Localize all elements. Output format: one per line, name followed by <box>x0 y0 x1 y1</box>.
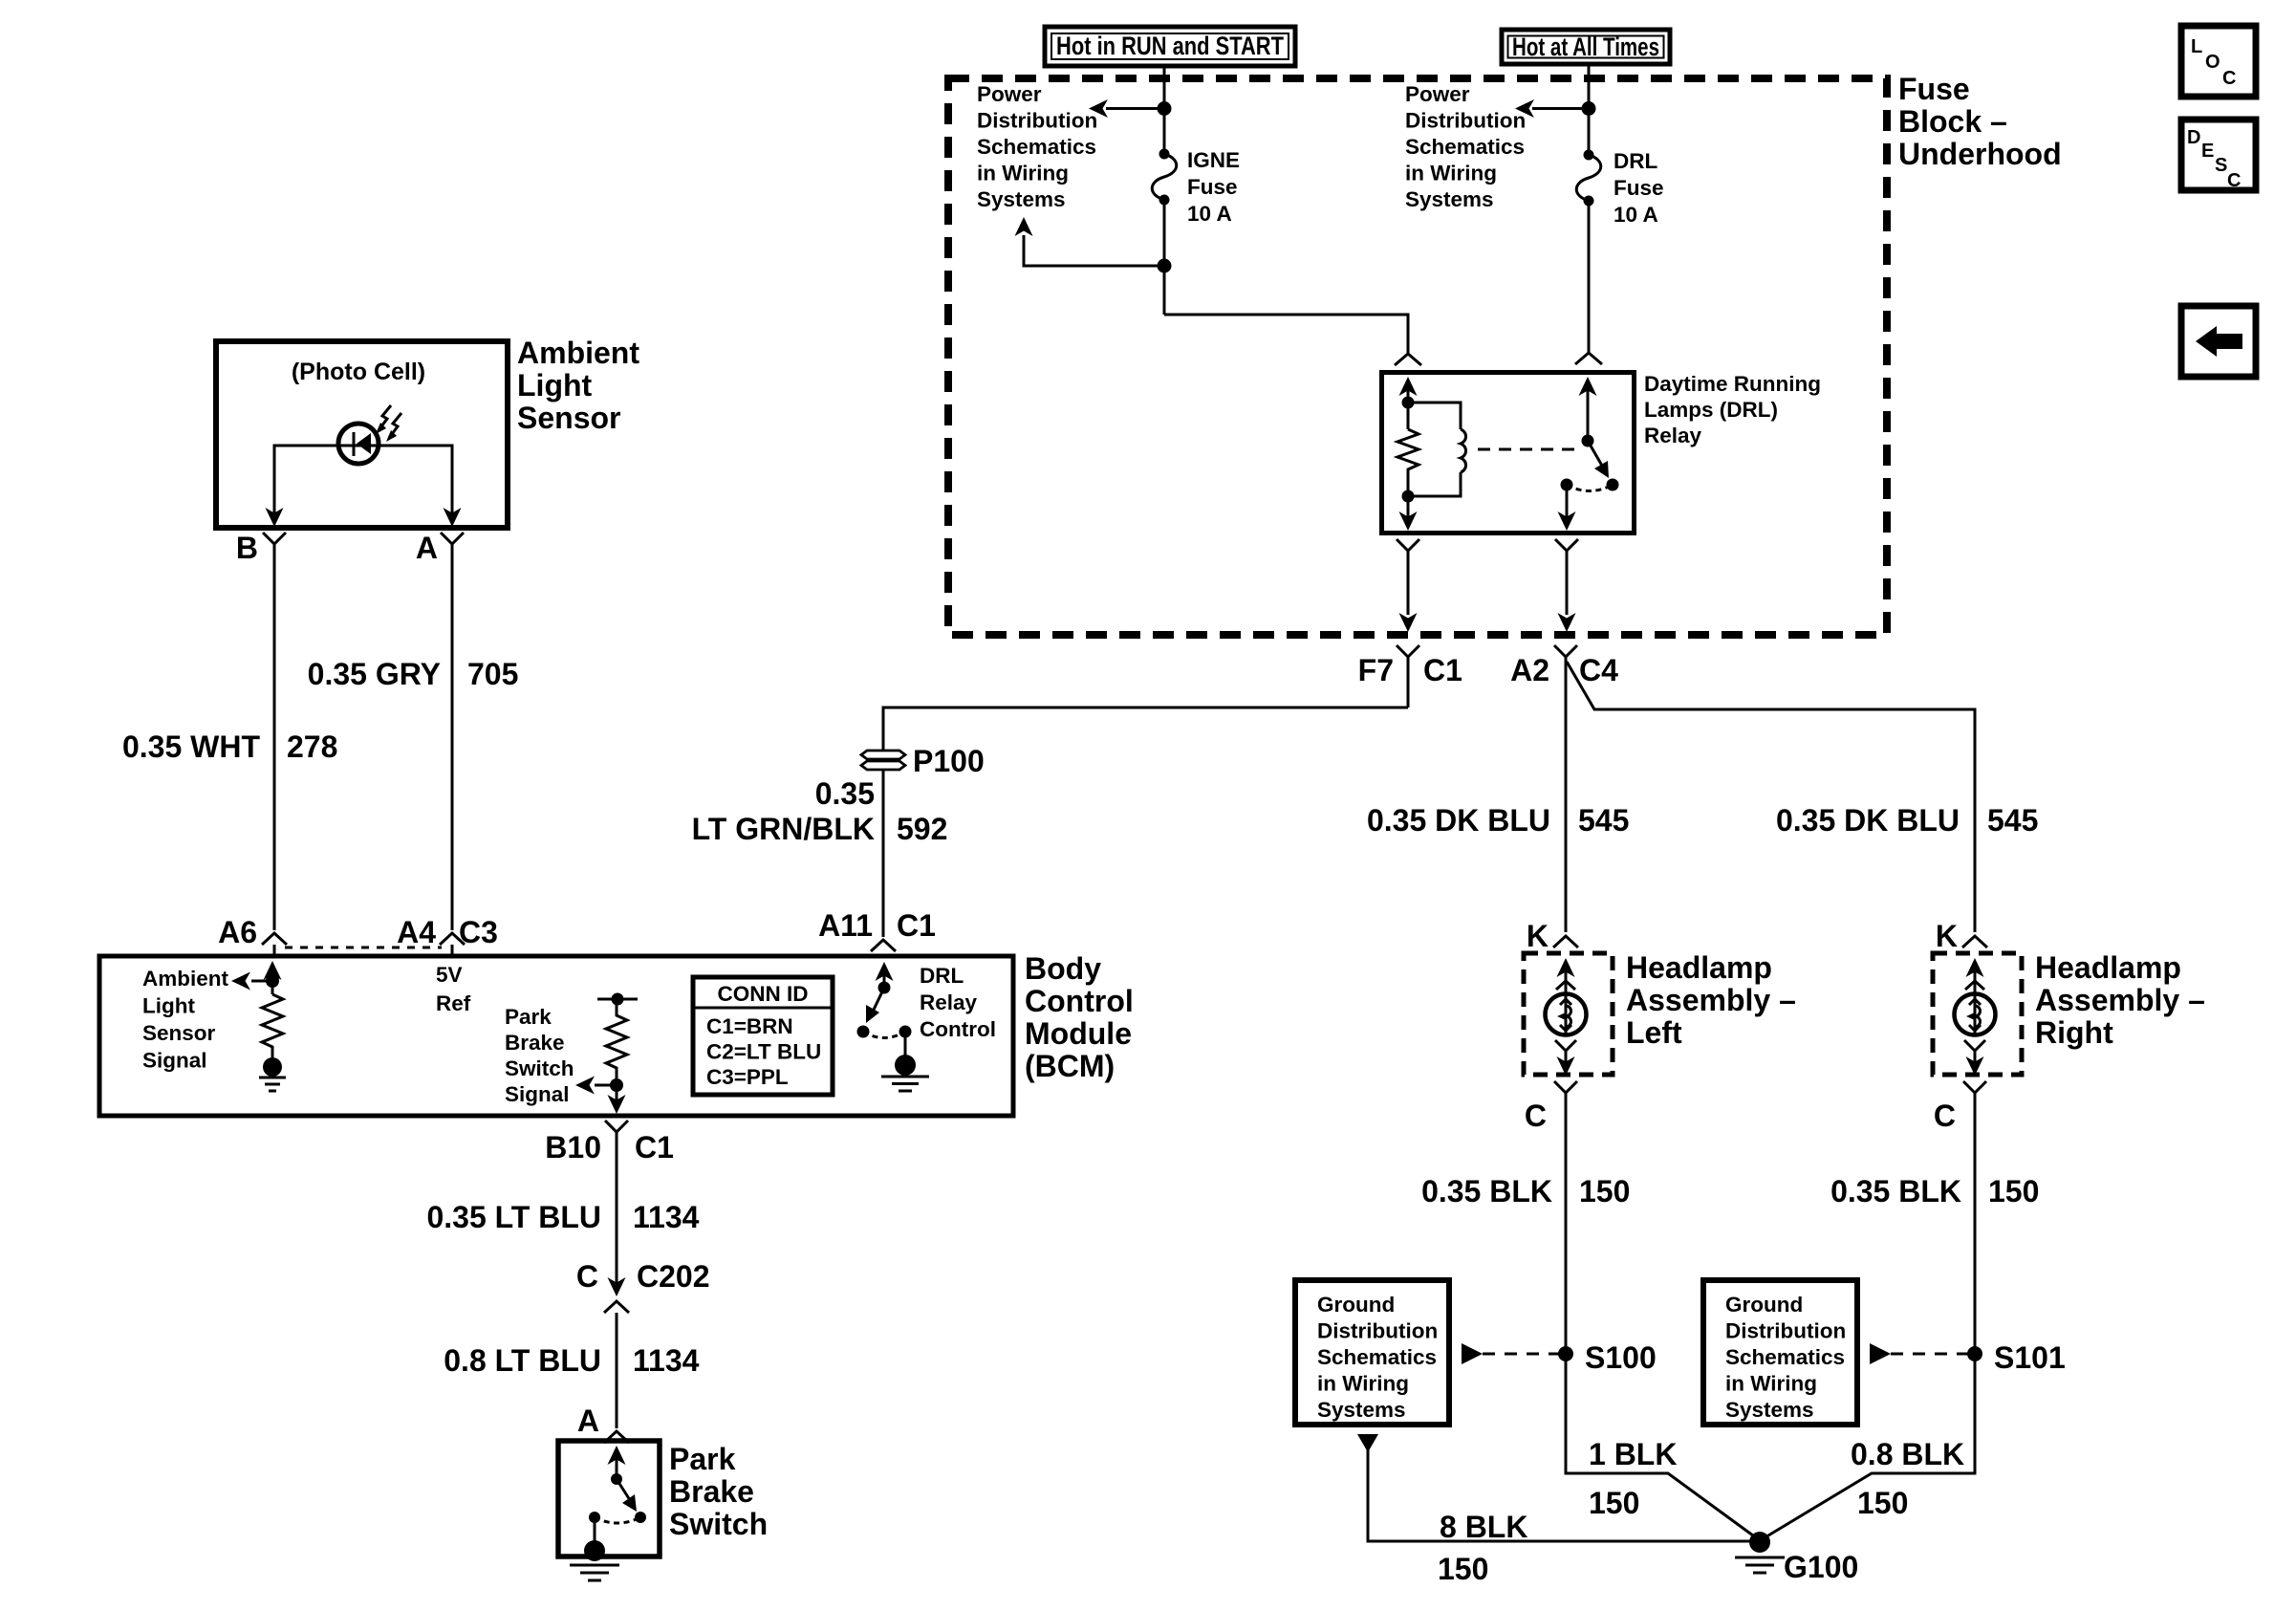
svg-text:C2=LT BLU: C2=LT BLU <box>706 1040 821 1064</box>
svg-text:Park: Park <box>669 1442 736 1476</box>
ground distribution box (left) <box>1295 1280 1449 1425</box>
svg-text:Control: Control <box>920 1017 996 1041</box>
headlamp assembly left dashed box <box>1524 953 1613 1075</box>
dashed splice link to S100 <box>1462 1343 1483 1364</box>
svg-text:150: 150 <box>1589 1486 1639 1520</box>
svg-text:C: C <box>1525 1099 1547 1133</box>
svg-text:Lamps (DRL): Lamps (DRL) <box>1644 398 1778 422</box>
BCM park brake signal node <box>610 1078 623 1092</box>
pin B connector below sensor <box>263 533 286 930</box>
svg-text:Ground: Ground <box>1725 1293 1803 1317</box>
label Daytime Running Lamps (DRL) Relay <box>1644 372 1821 447</box>
pin B10 C1 connector below BCM <box>605 1121 628 1289</box>
svg-text:Light: Light <box>517 368 593 403</box>
node junction on DRL feed <box>1582 101 1596 116</box>
fuse DRL 10 A <box>1576 150 1601 207</box>
relay switch open contact node <box>1607 479 1619 491</box>
node junction below IGNE fuse <box>1158 259 1172 273</box>
svg-text:IGNE: IGNE <box>1187 148 1240 172</box>
headlamp right bulb pin in <box>1974 962 1977 994</box>
wire stub to power distribution arrow (right) <box>1532 107 1589 110</box>
relay switch closed contact node <box>1561 479 1573 491</box>
svg-text:150: 150 <box>1857 1486 1908 1520</box>
connector Y below relay switch pin <box>1555 539 1578 615</box>
svg-text:150: 150 <box>1988 1174 2039 1208</box>
svg-text:Distribution: Distribution <box>1725 1319 1846 1343</box>
splice S100 <box>1558 1346 1573 1361</box>
park brake switch fixed contact <box>589 1512 600 1523</box>
svg-text:Relay: Relay <box>920 991 978 1014</box>
svg-text:Schematics: Schematics <box>1725 1345 1845 1369</box>
wire S101 to G100 <box>1764 1354 1975 1538</box>
wire below IGNE fuse <box>1163 200 1166 315</box>
CONN ID table <box>693 977 833 1095</box>
svg-text:Signal: Signal <box>142 1049 207 1073</box>
svg-text:705: 705 <box>467 657 518 691</box>
svg-text:Schematics: Schematics <box>977 135 1096 159</box>
headlamp left bulb pin in <box>1565 962 1568 994</box>
wire A2 branch diagonal to right headlamp feed <box>1567 662 1975 932</box>
label Park Brake Switch Signal <box>505 1005 574 1106</box>
svg-text:Assembly –: Assembly – <box>1626 983 1796 1017</box>
svg-text:Switch: Switch <box>505 1056 574 1080</box>
wire from Hot in RUN banner to IGNE fuse <box>1163 66 1166 153</box>
bulb left headlamp <box>1546 994 1587 1035</box>
relay switch arm <box>1588 441 1602 466</box>
svg-text:Daytime Running: Daytime Running <box>1644 372 1821 396</box>
svg-text:LT GRN/BLK: LT GRN/BLK <box>692 812 875 846</box>
svg-text:Body: Body <box>1025 951 1101 986</box>
svg-text:(Photo Cell): (Photo Cell) <box>292 359 425 385</box>
svg-text:C: C <box>2227 170 2241 191</box>
svg-text:S101: S101 <box>1994 1340 2066 1375</box>
ambient light sensor box <box>216 341 508 528</box>
relay internal resistor <box>1397 429 1419 496</box>
svg-text:278: 278 <box>287 729 337 764</box>
svg-text:0.35: 0.35 <box>815 776 875 811</box>
relay coil <box>1408 403 1461 429</box>
svg-text:Distribution: Distribution <box>1317 1319 1438 1343</box>
pin A6 connector at BCM <box>262 933 287 945</box>
headlamp right bulb pin out <box>1964 1040 1985 1073</box>
label Power Distribution Schematics in Wiring Systems (left) <box>977 82 1097 211</box>
svg-text:A11: A11 <box>818 908 873 943</box>
svg-text:C3=PPL: C3=PPL <box>706 1065 789 1089</box>
arrow to Power Distribution Schematics <box>1089 99 1108 118</box>
svg-text:Underhood: Underhood <box>1898 137 2062 171</box>
DRL control open contact node <box>857 1026 870 1038</box>
label Headlamp Assembly - Left <box>1626 950 1796 1050</box>
connector chevron above relay coil pin <box>1395 354 1421 365</box>
wire 8 BLK to G100 <box>1368 1449 1757 1541</box>
LOC reference box <box>2181 26 2256 97</box>
label Fuse Block - Underhood <box>1898 72 2062 171</box>
label IGNE Fuse 10 A <box>1187 148 1240 226</box>
svg-text:in Wiring: in Wiring <box>1317 1372 1409 1396</box>
relay switch output pin with down arrow <box>1566 485 1569 528</box>
banner box "Hot at All Times" <box>1502 30 1670 64</box>
pin K connector right headlamp <box>1962 936 1987 947</box>
pin A4 C3 connector at BCM <box>440 933 465 945</box>
BCM internal ground (ambient signal) <box>259 1057 286 1091</box>
label Ambient Light Sensor <box>517 336 639 435</box>
label Ambient Light Sensor Signal <box>142 967 229 1073</box>
svg-text:K: K <box>1936 919 1958 953</box>
svg-text:C: C <box>2222 68 2236 89</box>
svg-text:C202: C202 <box>637 1259 710 1294</box>
photo cell symbol <box>338 405 401 464</box>
svg-text:Assembly –: Assembly – <box>2035 983 2205 1017</box>
svg-text:Switch: Switch <box>669 1507 768 1541</box>
svg-text:150: 150 <box>1438 1552 1488 1586</box>
svg-text:545: 545 <box>1578 803 1629 838</box>
fuse block underhood dashed outline <box>948 78 1887 635</box>
label Power Distribution Schematics in Wiring Systems (right) <box>1405 82 1526 211</box>
svg-text:F7: F7 <box>1358 653 1394 687</box>
dashed connector body link A6-A4 <box>285 947 442 949</box>
svg-text:DRL: DRL <box>1614 149 1657 173</box>
svg-text:0.8 BLK: 0.8 BLK <box>1851 1437 1964 1471</box>
svg-text:Relay: Relay <box>1644 424 1702 447</box>
bulb right headlamp <box>1955 994 1996 1035</box>
svg-text:A4: A4 <box>397 915 436 949</box>
svg-text:P100: P100 <box>913 744 985 778</box>
svg-text:Systems: Systems <box>977 187 1066 211</box>
svg-text:C1=BRN: C1=BRN <box>706 1014 793 1038</box>
svg-text:Hot at All Times: Hot at All Times <box>1512 33 1659 61</box>
svg-text:10 A: 10 A <box>1614 203 1658 227</box>
svg-text:8 BLK: 8 BLK <box>1440 1510 1527 1544</box>
relay coil output pin with down arrow <box>1407 496 1410 528</box>
svg-text:5V: 5V <box>436 963 463 987</box>
pin C connector below left headlamp <box>1554 1081 1577 1354</box>
relay coil pin entering top <box>1407 381 1410 429</box>
svg-text:in Wiring: in Wiring <box>1725 1372 1817 1396</box>
svg-text:L: L <box>2191 36 2202 57</box>
pin A connector above park brake switch <box>604 1431 629 1443</box>
svg-text:Brake: Brake <box>669 1474 754 1509</box>
svg-text:Fuse: Fuse <box>1614 176 1664 200</box>
svg-text:10 A: 10 A <box>1187 202 1232 226</box>
BCM ambient light sensor signal pin arrow <box>271 966 274 994</box>
dashed splice link to S101 <box>1870 1343 1891 1364</box>
ground G100 <box>1735 1532 1785 1573</box>
pin A2 C4 connector below fuse block <box>1554 645 1577 932</box>
svg-text:Brake: Brake <box>505 1031 565 1055</box>
pin C connector below right headlamp <box>1963 1081 1986 1354</box>
pin K connector left headlamp <box>1553 936 1578 947</box>
svg-text:K: K <box>1527 919 1549 953</box>
wire branch to upward arrow <box>1024 235 1164 266</box>
svg-text:A: A <box>416 531 438 565</box>
svg-text:C1: C1 <box>897 908 936 943</box>
svg-text:Distribution: Distribution <box>977 109 1097 133</box>
wire A6 chevron into BCM <box>273 945 276 958</box>
svg-text:A2: A2 <box>1510 653 1549 687</box>
wire relay switch pin to fuse block edge <box>1558 613 1576 632</box>
svg-text:Power: Power <box>977 82 1042 106</box>
svg-text:C1: C1 <box>1423 653 1462 687</box>
label Park Brake Switch <box>669 1442 768 1541</box>
svg-text:Fuse: Fuse <box>1187 175 1238 199</box>
svg-text:C3: C3 <box>459 915 498 949</box>
relay switch pivot node <box>1582 435 1594 447</box>
svg-text:0.8 LT BLU: 0.8 LT BLU <box>444 1343 601 1378</box>
wire photo cell to pin B <box>274 446 339 521</box>
svg-text:1134: 1134 <box>633 1343 700 1378</box>
svg-text:Headlamp: Headlamp <box>1626 950 1772 985</box>
svg-text:Distribution: Distribution <box>1405 109 1526 133</box>
svg-text:Systems: Systems <box>1317 1398 1406 1422</box>
svg-text:Sensor: Sensor <box>142 1021 216 1045</box>
svg-text:C: C <box>576 1259 598 1294</box>
wire IGNE feed to DRL relay coil <box>1164 315 1408 353</box>
svg-text:A: A <box>577 1404 599 1438</box>
connector Y below relay coil pin <box>1397 539 1419 615</box>
svg-text:Ambient: Ambient <box>517 336 639 370</box>
fuse IGNE 10 A <box>1152 149 1177 206</box>
svg-text:Ref: Ref <box>436 991 471 1015</box>
headlamp left bulb pin out <box>1555 1040 1576 1073</box>
svg-text:in Wiring: in Wiring <box>977 162 1069 185</box>
svg-text:Power: Power <box>1405 82 1470 106</box>
svg-text:0.35 LT BLU: 0.35 LT BLU <box>426 1200 601 1234</box>
relay actuation dashed link <box>1478 448 1579 451</box>
park brake switch box <box>558 1441 660 1557</box>
pin A11 C1 connector above BCM <box>871 940 896 951</box>
pin A connector below sensor <box>441 533 464 930</box>
BCM park brake pull-up bar <box>597 998 638 1001</box>
svg-text:Ground: Ground <box>1317 1293 1395 1317</box>
relay coil bottom node <box>1402 490 1415 503</box>
svg-text:C: C <box>1934 1099 1956 1133</box>
svg-text:B: B <box>236 531 258 565</box>
svg-text:Signal: Signal <box>505 1082 570 1106</box>
back arrow box <box>2181 306 2256 377</box>
svg-text:in Wiring: in Wiring <box>1405 162 1497 185</box>
svg-text:Headlamp: Headlamp <box>2035 950 2181 985</box>
svg-text:0.35 BLK: 0.35 BLK <box>1421 1174 1552 1208</box>
wire F7 to P100 and BCM A11 <box>883 708 1408 751</box>
svg-text:B10: B10 <box>545 1130 601 1165</box>
wire stub to power distribution arrow (left) <box>1106 107 1164 110</box>
svg-text:Control: Control <box>1025 984 1134 1018</box>
svg-text:S: S <box>2215 155 2227 176</box>
wire photo cell to pin A <box>379 446 452 521</box>
svg-text:DRL: DRL <box>920 964 964 988</box>
label DRL Fuse 10 A <box>1614 149 1664 227</box>
headlamp assembly right dashed box <box>1933 953 2022 1075</box>
inline connector C C202 <box>608 1277 626 1296</box>
svg-text:Systems: Systems <box>1725 1398 1814 1422</box>
wire from Hot at All Times banner to DRL fuse <box>1588 64 1591 155</box>
svg-text:E: E <box>2201 141 2214 162</box>
svg-text:Block –: Block – <box>1898 104 2007 139</box>
BCM internal resistor (ambient signal) <box>262 994 283 1058</box>
svg-text:Systems: Systems <box>1405 187 1494 211</box>
svg-text:Hot in RUN and START: Hot in RUN and START <box>1056 32 1284 60</box>
wire S100 to G100 <box>1566 1354 1757 1538</box>
svg-text:1 BLK: 1 BLK <box>1589 1437 1677 1471</box>
svg-text:C4: C4 <box>1579 653 1618 687</box>
arrow to Power Distribution Schematics (right) <box>1515 99 1534 118</box>
label Headlamp Assembly - Right <box>2035 950 2205 1050</box>
arrow up to Power Distribution Schematics <box>1015 217 1033 236</box>
ground distribution triangle tap <box>1357 1434 1378 1452</box>
park brake switch pin arrow <box>616 1449 618 1479</box>
svg-text:0.35 GRY: 0.35 GRY <box>308 657 441 691</box>
wire relay coil pin to fuse block edge <box>1399 613 1418 632</box>
svg-text:Ambient: Ambient <box>142 967 229 991</box>
wire DRL fuse to relay switch pin <box>1588 201 1591 352</box>
svg-text:Left: Left <box>1626 1015 1682 1050</box>
svg-text:Right: Right <box>2035 1015 2113 1050</box>
wire P100 to BCM pin A11 <box>882 770 885 937</box>
svg-text:Sensor: Sensor <box>517 401 620 435</box>
svg-text:O: O <box>2205 52 2220 73</box>
svg-text:Fuse: Fuse <box>1898 72 1970 106</box>
svg-text:Light: Light <box>142 994 195 1018</box>
banner box "Hot in RUN and START" <box>1045 27 1295 66</box>
svg-text:0.35 DK BLU: 0.35 DK BLU <box>1367 803 1550 838</box>
svg-text:592: 592 <box>897 812 947 846</box>
BCM DRL relay control switch <box>883 967 886 988</box>
svg-text:0.35 DK BLU: 0.35 DK BLU <box>1776 803 1960 838</box>
svg-text:Park: Park <box>505 1005 552 1029</box>
DESC reference box <box>2181 120 2256 191</box>
svg-text:545: 545 <box>1987 803 2038 838</box>
ground distribution box (right) <box>1703 1280 1857 1425</box>
park brake switch arm <box>617 1479 630 1500</box>
relay switch dashed throw arc <box>1567 485 1613 491</box>
svg-text:A6: A6 <box>218 915 257 949</box>
BCM park brake pin down arrow <box>608 1095 626 1114</box>
label Body Control Module (BCM) <box>1025 951 1134 1083</box>
BCM internal resistor (park brake) <box>606 999 627 1075</box>
relay switch pin from top <box>1587 381 1590 441</box>
svg-text:0.35 BLK: 0.35 BLK <box>1830 1174 1961 1208</box>
svg-text:(BCM): (BCM) <box>1025 1049 1115 1083</box>
node junction on IGNE feed <box>1158 101 1172 116</box>
connector chevron above relay switch pin <box>1575 353 1602 364</box>
svg-text:CONN ID: CONN ID <box>718 982 809 1006</box>
svg-text:150: 150 <box>1579 1174 1630 1208</box>
wire A4 chevron into BCM <box>451 945 454 958</box>
svg-text:C1: C1 <box>635 1130 674 1165</box>
svg-text:1134: 1134 <box>633 1200 700 1234</box>
svg-text:0.35 WHT: 0.35 WHT <box>122 729 260 764</box>
grommet P100 <box>861 751 905 770</box>
svg-text:S100: S100 <box>1585 1340 1657 1375</box>
relay coil top node <box>1402 397 1415 409</box>
park brake switch ground <box>594 1517 596 1544</box>
pin F7 C1 connector below fuse block <box>1397 645 1419 708</box>
DRL control closed contact node <box>899 1026 912 1038</box>
splice S101 <box>1967 1346 1982 1361</box>
BCM box <box>99 956 1013 1116</box>
label DRL Relay Control <box>920 964 996 1041</box>
svg-text:Schematics: Schematics <box>1405 135 1525 159</box>
svg-text:G100: G100 <box>1784 1550 1858 1584</box>
svg-text:Schematics: Schematics <box>1317 1345 1437 1369</box>
DRL control ground leg <box>904 1032 907 1057</box>
DRL control dashed throw arc <box>863 1032 905 1038</box>
svg-text:Module: Module <box>1025 1016 1132 1051</box>
relay DRL box <box>1382 373 1635 533</box>
label 0.35 LT GRN/BLK 592 <box>692 776 948 846</box>
svg-text:D: D <box>2187 127 2200 148</box>
